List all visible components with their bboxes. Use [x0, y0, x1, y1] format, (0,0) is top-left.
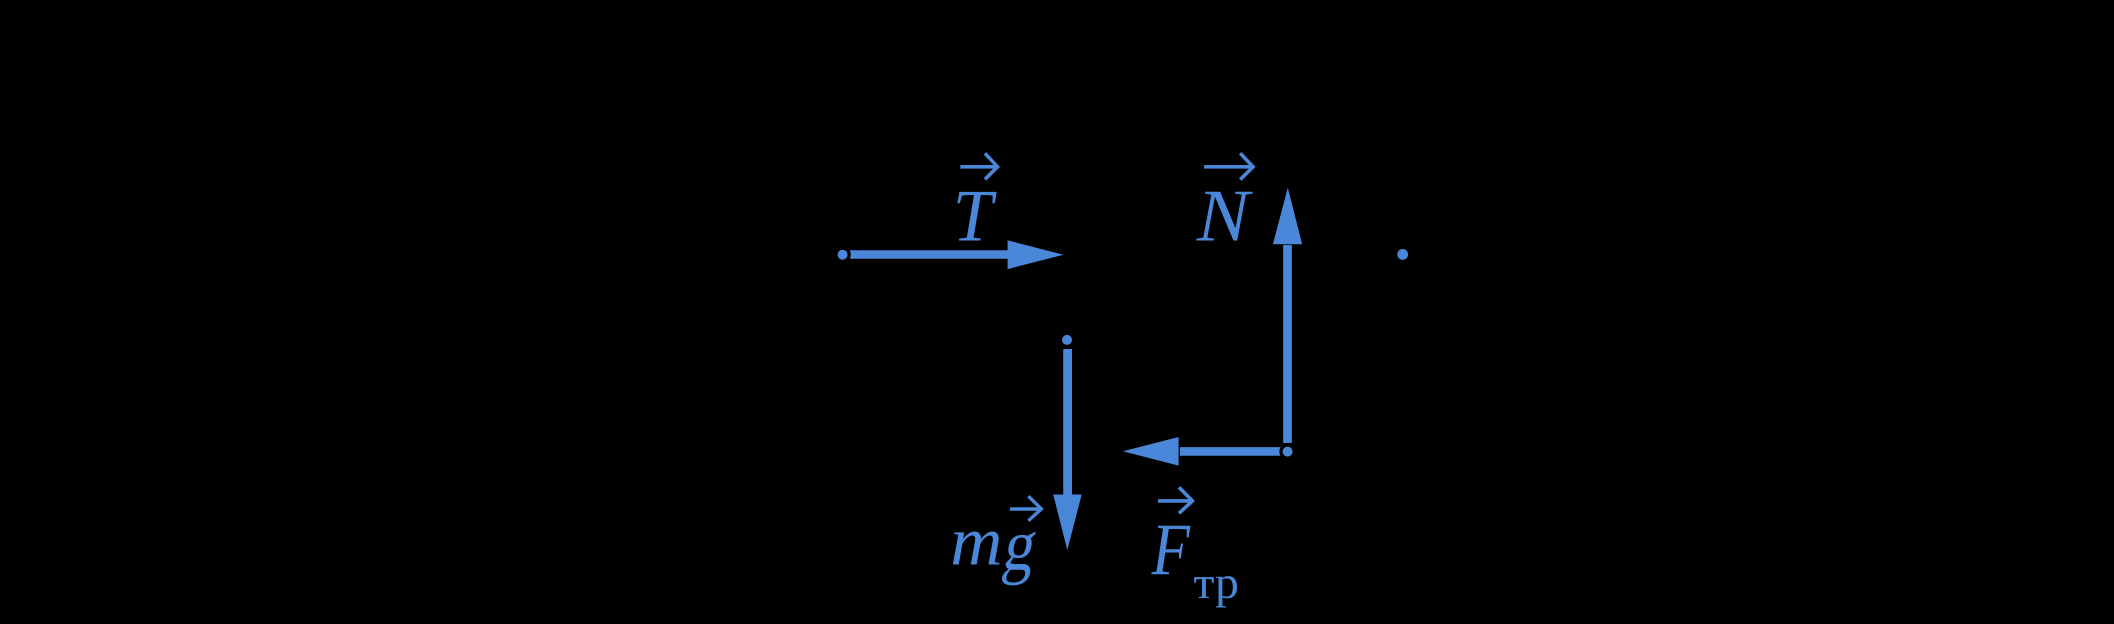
- vector T shaft: [850, 250, 1012, 259]
- vector F friction arrowhead: [1123, 437, 1179, 466]
- vector mg shaft: [1063, 349, 1072, 495]
- vector T origin dot: [836, 248, 849, 261]
- vector F label: [1151, 508, 1191, 590]
- svg-text:T: T: [953, 174, 997, 257]
- vector N hat arrow: [1204, 153, 1253, 179]
- vector mg label: [950, 504, 1002, 580]
- vector N label: [1196, 175, 1254, 257]
- svg-text:m: m: [950, 504, 1002, 580]
- vector F friction shaft: [1180, 447, 1281, 456]
- vector T hat arrow: [960, 153, 997, 179]
- vector T arrowhead: [1008, 240, 1064, 269]
- svg-text:тр: тр: [1194, 558, 1239, 609]
- svg-text:N: N: [1196, 175, 1254, 257]
- vector N arrowhead: [1273, 188, 1302, 244]
- vector N shaft: [1283, 245, 1292, 443]
- isolated reference point: [1397, 249, 1408, 260]
- vector F subscript tr: [1194, 558, 1239, 609]
- svg-text:F: F: [1151, 508, 1191, 590]
- vector T label: [953, 174, 997, 257]
- vector mg origin dot: [1060, 333, 1073, 346]
- vector F hat arrow: [1158, 487, 1192, 513]
- vector mg hat arrow over g: [1010, 496, 1041, 521]
- junction dot of N and F vectors: [1281, 445, 1294, 458]
- vector mg arrowhead: [1053, 495, 1082, 551]
